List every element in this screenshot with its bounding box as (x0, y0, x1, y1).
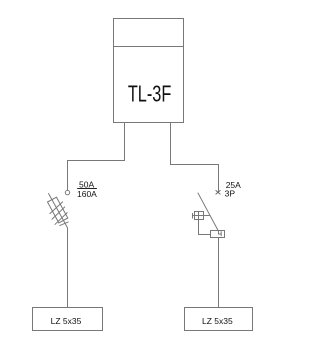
fuse phase tick 1 (50, 202, 63, 214)
magnetic release box (193, 212, 211, 220)
fuse end bar (59, 222, 68, 226)
wire: left feeder from panel (68, 123, 125, 191)
svg-text:LZ 5x35: LZ 5x35 (202, 316, 233, 326)
terminal circle (left feeder) (65, 190, 69, 194)
fuse blade (open fuse-switch) (48, 193, 67, 228)
release linkage wire (199, 220, 211, 235)
wire: fuse to left busbar (67, 228, 69, 308)
fuse phase tick 2 (52, 207, 65, 220)
panel TL-3F outline (114, 19, 184, 123)
busbar box LZ 5x35 (left) (33, 308, 103, 331)
fuse phase tick 3 (55, 212, 68, 224)
svg-text:LZ 5x35: LZ 5x35 (51, 316, 82, 326)
svg-text:50A: 50A (79, 179, 94, 189)
thermal release box (211, 231, 225, 238)
wire: right feeder from panel (171, 123, 219, 193)
wire: breaker to right busbar (218, 238, 220, 308)
fuse body (48, 197, 68, 223)
fraction bar (77, 188, 97, 190)
panel header divider (114, 46, 184, 48)
busbar box LZ 5x35 (right) (185, 308, 253, 331)
svg-text:3P: 3P (225, 189, 236, 199)
svg-text:TL-3F: TL-3F (128, 81, 172, 107)
breaker fixed contact x (216, 190, 221, 194)
circuit breaker blade (198, 193, 218, 231)
svg-text:160A: 160A (77, 189, 97, 199)
